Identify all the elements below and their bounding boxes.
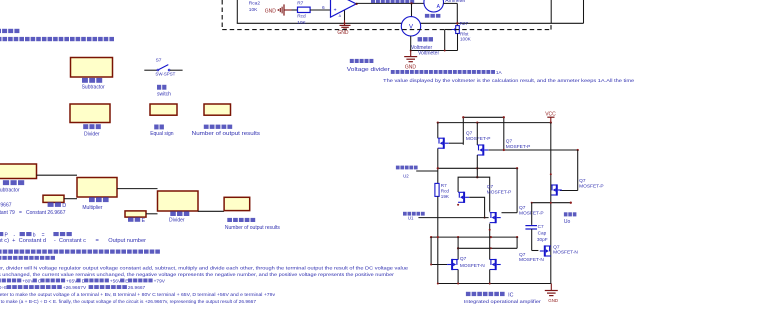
svg-text:Cap: Cap — [538, 231, 547, 236]
transistor Q7 MOSFET-P second (P2) — [476, 123, 478, 145]
svg-text:10K: 10K — [249, 7, 258, 13]
wire output node row and terminal Uo — [532, 202, 571, 204]
transistor Q7 MOSFET-P diode-connected (P3) — [458, 191, 464, 193]
wire VCC rail H1 — [438, 122, 551, 124]
svg-text:GND: GND — [265, 8, 277, 14]
wire N-mirror gate row H5 — [458, 247, 517, 249]
svg-text:Divider: Divider — [169, 218, 185, 224]
wire R7 to op-amp pin 6 — [310, 9, 330, 11]
wire P3 gate loop — [469, 197, 484, 217]
wire R7 down to bottom-left column — [437, 196, 439, 283]
transistor Q7 MOSFET-P first (P1) — [437, 123, 439, 139]
svg-text:D÷E: D÷E — [0, 285, 7, 291]
svg-text:Subtractor: Subtractor — [82, 85, 105, 91]
transistor Q7 MOSFET-N output (N3) — [545, 245, 551, 247]
voltmeter labels — [418, 37, 423, 41]
transistor Q7 MOSFET-P output (P5) — [551, 184, 557, 186]
svg-text:Q7: Q7 — [466, 131, 473, 137]
resistor R7 Rcd 10K — [298, 7, 311, 12]
wire constant E to divider — [146, 213, 158, 215]
wire P4 drain column down to N2 — [489, 224, 491, 260]
svg-text:stant 79 = Constant 26.966: stant 79 = Constant 26.9667 — [0, 210, 66, 216]
svg-text:Q7: Q7 — [460, 256, 467, 262]
wire N-mirror gate bracket left — [431, 237, 447, 264]
svg-text:MOSFET-P: MOSFET-P — [506, 144, 531, 150]
wire down to voltmeter — [411, 3, 413, 16]
ground under op-amp — [344, 10, 346, 20]
label voltage divider — [350, 59, 354, 63]
wire divider to output box — [198, 210, 224, 212]
svg-text:R27: R27 — [460, 21, 469, 26]
wire bottom of feedback loop — [237, 22, 584, 24]
svg-text:Uo: Uo — [564, 219, 571, 225]
svg-text:S7: S7 — [156, 58, 162, 64]
resistor R7 Rcd 19K (right circuit) — [435, 183, 439, 196]
svg-text:U1: U1 — [408, 215, 414, 220]
capacitor C7 Cap 30pF — [531, 203, 533, 225]
svg-text:MOSFET-P: MOSFET-P — [487, 190, 512, 196]
svg-text:Rcd: Rcd — [441, 189, 450, 194]
wire non-inverting input row H2 — [438, 167, 517, 169]
svg-text:Number of output results: Number of output results — [225, 225, 281, 231]
flow box divider — [158, 191, 199, 211]
node op-amp output to voltmeter — [410, 2, 412, 4]
voltmeter V — [401, 17, 420, 36]
svg-text:10K: 10K — [297, 20, 306, 26]
wire multiplier to divider — [117, 188, 158, 190]
svg-text:er to make (a + B-C) ÷ D < E.: er to make (a + B-C) ÷ D < E. finally, t… — [0, 299, 256, 304]
legend box divider — [70, 104, 110, 123]
svg-text:Equal sign: Equal sign — [150, 131, 174, 137]
svg-text:Subtractor: Subtractor — [0, 188, 20, 194]
svg-text:.9667: .9667 — [0, 203, 12, 209]
svg-text:Voltmeter: Voltmeter — [418, 50, 439, 56]
svg-text:6: 6 — [322, 5, 325, 11]
svg-text:GND: GND — [337, 30, 349, 36]
wire voltmeter to ground — [410, 36, 412, 51]
svg-text:MOSFET-N: MOSFET-N — [460, 263, 485, 269]
wire op-amp output — [355, 3, 357, 5]
transistor Q7 MOSFET-N left (N1) — [457, 237, 459, 260]
wire subtractor to multiplier — [37, 174, 78, 176]
svg-text:MOSFET-P: MOSFET-P — [579, 184, 604, 190]
svg-text:+56V: +56V — [110, 279, 122, 285]
svg-text:tiometer to make the output vo: tiometer to make the output voltage of a… — [0, 292, 276, 297]
potentiometer R27 Rfot 100K — [456, 26, 460, 34]
wire current mirror top rectangle — [463, 117, 504, 150]
svg-text:D: D — [62, 203, 66, 209]
svg-text:Number of output results: Number of output results — [192, 131, 261, 137]
svg-text:SW-SPST: SW-SPST — [155, 72, 175, 77]
svg-text:Q7: Q7 — [487, 184, 494, 190]
svg-text:C7: C7 — [538, 224, 544, 229]
legend box number of output results — [204, 104, 231, 115]
svg-text:E: E — [142, 218, 146, 224]
note: voltmeter shows result — [391, 70, 395, 74]
flow box subtractor (clipped left) — [0, 164, 37, 179]
svg-text:GND: GND — [548, 298, 558, 303]
svg-text:19K: 19K — [441, 194, 450, 199]
svg-text:Q7: Q7 — [519, 205, 526, 211]
svg-text:+26.9667V: +26.9667V — [63, 285, 87, 291]
ammeter A (clipped at top) — [424, 0, 444, 12]
svg-text:Rca2: Rca2 — [249, 0, 261, 6]
wire P2 drain down to second stage rect — [476, 155, 478, 177]
wire right gate column down to P5 — [577, 150, 579, 191]
svg-text:+79V: +79V — [154, 279, 166, 285]
svg-text:Q7: Q7 — [579, 178, 586, 184]
svg-text:Q7: Q7 — [553, 244, 560, 250]
flow box constant E — [125, 211, 146, 217]
svg-text:IC: IC — [508, 292, 513, 298]
ground under voltmeter — [404, 56, 417, 58]
wire potentiometer bottom loop — [457, 34, 459, 51]
svg-text:A: A — [339, 14, 342, 18]
svg-text:Q7: Q7 — [506, 139, 513, 145]
flow box multiplier — [77, 178, 117, 198]
svg-text:R7: R7 — [441, 183, 447, 188]
transistor Q7 MOSFET-N middle (N2) — [490, 259, 496, 261]
svg-text:The value displayed by the vol: The value displayed by the voltmeter is … — [383, 78, 634, 84]
svg-text:Multiplier: Multiplier — [82, 205, 102, 211]
wire mid bias row H3 — [431, 236, 517, 238]
wire second stage mirror rect — [458, 177, 490, 212]
transistor Q7 MOSFET-P second stage (P4) — [490, 212, 496, 214]
ground of amplifier circuit — [550, 284, 552, 291]
legend box subtractor — [71, 58, 113, 78]
wire gnd to R7 — [292, 9, 298, 11]
svg-text:er, divider will N voltage reg: er, divider will N voltage regulator out… — [0, 266, 408, 272]
dashed sheet border of top block — [221, 0, 223, 28]
heading line 1 (clipped left) — [0, 29, 1, 33]
svg-text:R7: R7 — [297, 1, 303, 7]
label integrated operational amplifier — [466, 292, 471, 296]
svg-text:100K: 100K — [460, 36, 472, 41]
svg-text:1A: 1A — [496, 70, 503, 75]
svg-text:+: + — [334, 8, 337, 14]
svg-text:Rcd: Rcd — [297, 14, 306, 20]
wire output column VCC to ground rail — [550, 123, 552, 284]
op-amp U (clipped at top) — [331, 0, 357, 17]
svg-text:Voltage divider: Voltage divider — [347, 67, 390, 73]
paragraph notes (clipped left) — [0, 250, 2, 254]
svg-text:30pF: 30pF — [537, 237, 548, 242]
wire P2 gate row to right column — [488, 149, 577, 151]
svg-text:Integrated operational amplifi: Integrated operational amplifier — [464, 299, 541, 305]
svg-text:MOSFET-N: MOSFET-N — [519, 257, 544, 263]
svg-text:GND: GND — [405, 65, 417, 71]
wire left vertical of feedback loop — [236, 0, 238, 23]
wire ammeter to potentiometer column — [444, 2, 458, 4]
wire left column P1 drain down — [437, 148, 439, 183]
wire constant D to multiplier — [64, 198, 77, 200]
svg-text:switch: switch — [157, 91, 171, 97]
svg-text:+65V: +65V — [66, 279, 78, 285]
svg-text:Q7: Q7 — [519, 252, 526, 258]
legend box equal sign — [150, 104, 177, 115]
wire P1 gate to mirror rect — [449, 142, 463, 144]
svg-text:nt c) + Constant d - Co: nt c) + Constant d - Constant c = Output… — [0, 238, 146, 244]
svg-text:MOSFET-P: MOSFET-P — [466, 136, 491, 142]
svg-text:MOSFET-N: MOSFET-N — [553, 250, 578, 256]
svg-text:+80V: +80V — [22, 279, 34, 285]
label over output wire (clipped) — [371, 0, 375, 3]
svg-text:U2: U2 — [403, 173, 409, 178]
flow box number of output results — [224, 197, 250, 210]
svg-text:Divider: Divider — [84, 131, 100, 137]
svg-text:s unchanged, the current value: s unchanged, the current value remains u… — [0, 272, 394, 278]
wire P4 source link to H2 column — [502, 212, 518, 214]
svg-text:VCC: VCC — [545, 111, 556, 117]
node inverting input stub U1 — [418, 217, 488, 219]
flow box constant D — [43, 195, 64, 202]
wire right verticals of loop — [550, 0, 552, 23]
svg-text:26.9667: 26.9667 — [128, 285, 146, 291]
node non-inverting input stub U2 — [416, 170, 438, 172]
wire ground rail H4 — [438, 283, 552, 285]
